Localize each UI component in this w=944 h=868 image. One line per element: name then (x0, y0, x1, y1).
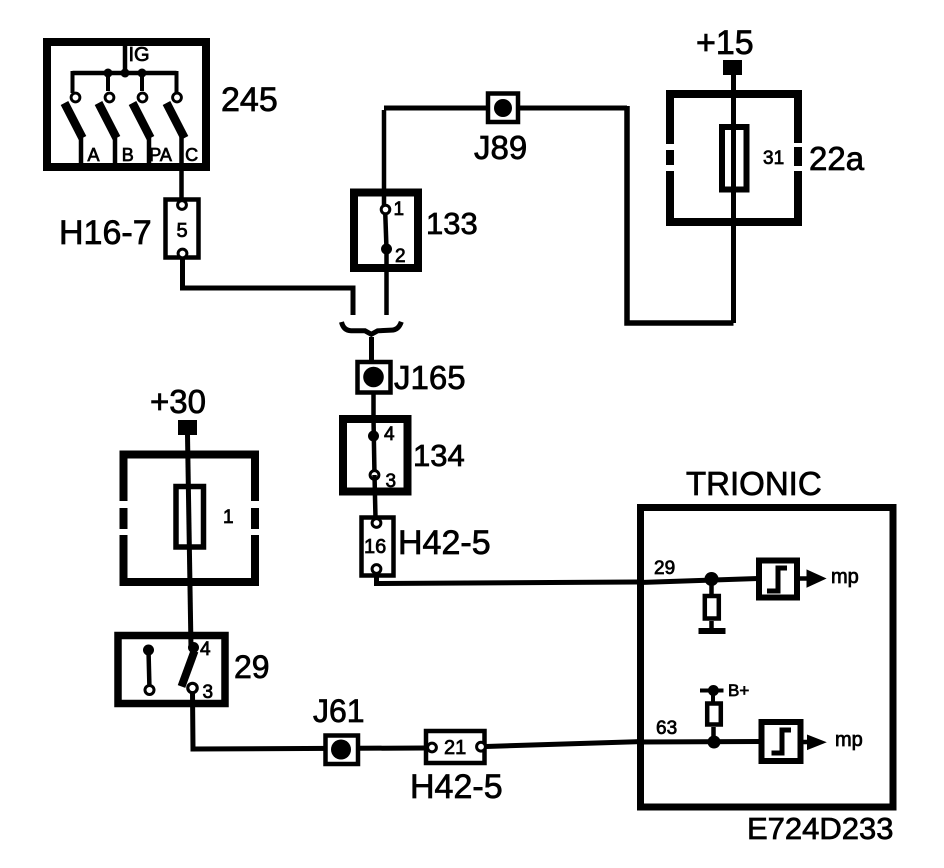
svg-text:2: 2 (395, 246, 406, 267)
svg-text:PA: PA (149, 145, 172, 165)
svg-text:B: B (122, 145, 134, 165)
svg-text:TRIONIC: TRIONIC (686, 465, 822, 502)
svg-text:mp: mp (835, 729, 863, 751)
svg-text:22a: 22a (809, 140, 865, 177)
svg-text:A: A (87, 145, 99, 165)
svg-text:H42-5: H42-5 (398, 524, 491, 562)
svg-text:C: C (185, 145, 198, 165)
svg-text:E724D233: E724D233 (747, 811, 894, 846)
svg-text:245: 245 (221, 81, 278, 119)
svg-text:134: 134 (413, 438, 465, 473)
svg-text:J61: J61 (313, 693, 365, 729)
svg-text:H16-7: H16-7 (59, 214, 152, 252)
svg-text:+30: +30 (150, 383, 206, 420)
svg-text:3: 3 (386, 471, 397, 492)
svg-text:29: 29 (234, 649, 270, 685)
svg-text:J165: J165 (394, 359, 466, 396)
svg-text:1: 1 (394, 199, 405, 220)
svg-text:H42-5: H42-5 (410, 768, 503, 806)
svg-text:133: 133 (426, 206, 478, 241)
svg-text:+15: +15 (696, 24, 754, 62)
svg-text:J89: J89 (474, 129, 527, 166)
svg-text:16: 16 (364, 536, 386, 558)
svg-text:3: 3 (203, 682, 214, 703)
svg-text:4: 4 (384, 424, 395, 445)
svg-text:31: 31 (763, 148, 784, 169)
svg-text:21: 21 (444, 737, 466, 759)
svg-text:mp: mp (831, 566, 859, 588)
svg-text:B+: B+ (728, 681, 749, 700)
svg-text:5: 5 (176, 220, 187, 242)
svg-text:63: 63 (656, 718, 677, 739)
svg-text:IG: IG (129, 44, 150, 66)
svg-text:4: 4 (200, 639, 211, 660)
svg-text:29: 29 (654, 558, 675, 579)
svg-text:1: 1 (223, 507, 234, 528)
